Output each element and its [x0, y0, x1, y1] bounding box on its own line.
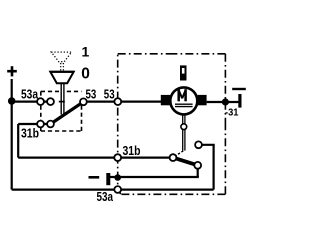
svg-text:1: 1: [82, 44, 90, 60]
svg-text:53: 53: [86, 88, 97, 102]
svg-text:-31: -31: [225, 106, 239, 118]
svg-text:31b: 31b: [123, 144, 141, 158]
svg-text:31b: 31b: [21, 127, 39, 141]
svg-text:53a: 53a: [97, 190, 114, 204]
svg-text:53: 53: [104, 88, 115, 102]
svg-text:0: 0: [81, 65, 90, 82]
svg-text:53a: 53a: [21, 87, 39, 101]
